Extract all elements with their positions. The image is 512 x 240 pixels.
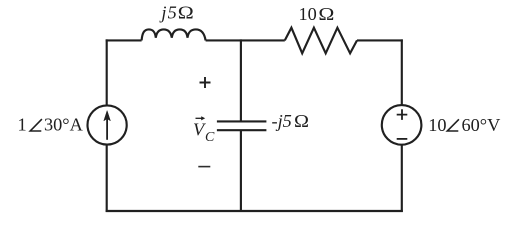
capacitor polarity minus sign — [198, 166, 210, 168]
svg-text:Ω: Ω — [178, 3, 194, 23]
wire: bottom horizontal rail — [106, 210, 403, 212]
current source arrow — [104, 111, 111, 140]
svg-text:Ω: Ω — [318, 4, 334, 24]
capacitor C1 bottom plate — [217, 129, 267, 131]
svg-text:C: C — [205, 130, 215, 145]
svg-text:j5: j5 — [159, 3, 178, 23]
capacitor voltage label V_C with vector arrow — [193, 116, 215, 145]
capacitor C1 top plate — [217, 120, 267, 122]
svg-text:1: 1 — [18, 114, 27, 134]
wire: top-left horizontal segment (top-left corner to inductor) — [106, 39, 142, 41]
wire: middle branch lower (capacitor bottom plate to bottom rail) — [240, 130, 242, 212]
wire: top-right horizontal segment (resistor to top-right corner) — [357, 39, 403, 41]
voltage source minus sign — [397, 138, 408, 140]
wire: top middle segment (inductor through node to resistor) — [206, 39, 285, 41]
wire: right branch lower (voltage source to bottom-right corner) — [401, 145, 403, 212]
voltage source plus sign — [397, 109, 408, 120]
current source U1 circle — [88, 105, 127, 144]
svg-text:Ω: Ω — [294, 111, 309, 131]
svg-text:10: 10 — [428, 115, 446, 135]
wire: middle branch upper (node to capacitor top plate) — [240, 39, 242, 121]
voltage source U2 circle — [382, 105, 422, 145]
wire: left branch lower (bottom-left corner up to current source) — [106, 145, 108, 212]
svg-text:60°V: 60°V — [462, 115, 501, 135]
wire: left branch upper (current source up to top-left corner) — [106, 39, 108, 105]
svg-text:10: 10 — [299, 4, 317, 24]
svg-text:-j5: -j5 — [272, 111, 292, 131]
inductor L1 (j5 ohm) — [142, 29, 206, 40]
voltage source label angle symbol — [447, 119, 459, 131]
capacitor polarity plus sign — [200, 77, 211, 88]
current source label angle symbol — [30, 119, 42, 131]
resistor R1 (10 ohm) — [285, 28, 357, 54]
wire: right branch upper (top-right corner down to voltage source) — [401, 39, 403, 105]
svg-text:30°A: 30°A — [44, 114, 84, 134]
